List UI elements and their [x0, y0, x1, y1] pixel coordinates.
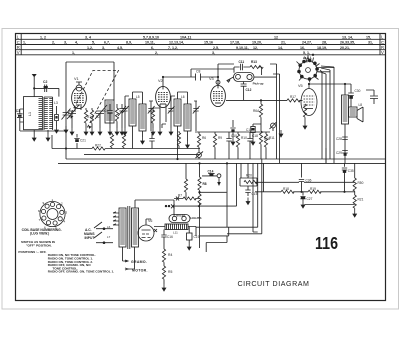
- svg-text:6,: 6,: [151, 46, 154, 50]
- svg-text:L6: L6: [181, 95, 185, 99]
- svg-text:2,: 2,: [155, 51, 158, 55]
- svg-text:L1: L1: [28, 112, 32, 116]
- svg-text:V1: V1: [74, 77, 79, 81]
- svg-text:13, 14,: 13, 14,: [342, 35, 353, 39]
- svg-text:L7: L7: [107, 235, 111, 239]
- svg-text:9,10,11,: 9,10,11,: [236, 46, 249, 50]
- svg-text:Pick-up: Pick-up: [253, 82, 264, 86]
- svg-text:C18: C18: [252, 134, 258, 138]
- svg-text:10,11,: 10,11,: [145, 41, 155, 45]
- svg-text:R9: R9: [218, 136, 222, 140]
- svg-text:C15: C15: [252, 192, 258, 196]
- svg-text:C8: C8: [196, 70, 200, 74]
- svg-text:1, 2: 1, 2: [40, 35, 46, 39]
- svg-text:C28: C28: [336, 137, 342, 141]
- svg-text:R22: R22: [95, 144, 101, 148]
- svg-text:15,: 15,: [366, 35, 371, 39]
- svg-text:R20: R20: [246, 174, 252, 178]
- svg-text:C30: C30: [355, 89, 361, 93]
- svg-text:V3: V3: [209, 77, 214, 81]
- svg-text:P. BULBS: P. BULBS: [174, 214, 186, 218]
- svg-text:8,9,: 8,9,: [126, 41, 132, 45]
- svg-text:A.A.I.: A.A.I.: [303, 56, 312, 60]
- svg-text:5,: 5,: [92, 41, 95, 45]
- svg-text:R1: R1: [87, 115, 91, 119]
- svg-text:3, 4: 3, 4: [85, 35, 91, 39]
- svg-text:3,: 3,: [212, 51, 215, 55]
- svg-text:5, 1,: 5, 1,: [303, 51, 310, 55]
- svg-text:24,27,: 24,27,: [302, 41, 312, 45]
- svg-text:L11: L11: [173, 231, 178, 235]
- svg-text:21,: 21,: [281, 41, 286, 45]
- svg-text:20,21,: 20,21,: [340, 46, 350, 50]
- svg-text:1,: 1,: [23, 41, 26, 45]
- svg-text:V: V: [381, 50, 384, 55]
- svg-text:C14: C14: [208, 170, 214, 174]
- svg-text:17,18,: 17,18,: [230, 41, 240, 45]
- svg-text:R2: R2: [96, 115, 100, 119]
- svg-text:L5: L5: [136, 95, 140, 99]
- svg-text:12,13,14,: 12,13,14,: [169, 41, 184, 45]
- svg-text:GRAMO.: GRAMO.: [131, 260, 147, 264]
- svg-text:R21: R21: [358, 198, 364, 202]
- svg-text:C35: C35: [348, 169, 354, 173]
- svg-text:C13: C13: [246, 128, 252, 132]
- svg-text:1,2,: 1,2,: [87, 46, 93, 50]
- svg-text:2,: 2,: [52, 41, 55, 45]
- svg-text:R18: R18: [283, 187, 289, 191]
- svg-text:V6: V6: [148, 219, 152, 223]
- svg-text:4,5,: 4,5,: [117, 46, 123, 50]
- svg-text:R6A: R6A: [253, 109, 260, 113]
- svg-text:7, 1,2,: 7, 1,2,: [168, 46, 178, 50]
- svg-text:C2: C2: [43, 80, 47, 84]
- svg-text:C29: C29: [336, 151, 342, 155]
- svg-text:R4: R4: [168, 253, 172, 257]
- svg-text:(LUG VIEW.): (LUG VIEW.): [30, 231, 49, 235]
- svg-text:14,: 14,: [278, 46, 283, 50]
- svg-text:C12: C12: [246, 88, 252, 92]
- svg-text:RADIO OFF, GRAMO. ON, TONE CON: RADIO OFF, GRAMO. ON, TONE CONTROL 1.: [48, 270, 115, 274]
- svg-text:6,7,: 6,7,: [104, 41, 110, 45]
- svg-text:10A,11: 10A,11: [180, 35, 191, 39]
- svg-text:L6: L6: [107, 225, 111, 229]
- svg-text:19,20,: 19,20,: [252, 41, 262, 45]
- svg-text:CIRCUIT DIAGRAM: CIRCUIT DIAGRAM: [238, 279, 310, 288]
- svg-text:LIGHTS: LIGHTS: [191, 216, 202, 220]
- svg-text:15,16: 15,16: [204, 41, 213, 45]
- svg-text:3: 3: [66, 211, 68, 215]
- svg-text:3,: 3,: [102, 46, 105, 50]
- svg-text:C10: C10: [231, 134, 237, 138]
- svg-text:R6: R6: [202, 136, 206, 140]
- svg-text:2: 2: [61, 202, 63, 206]
- svg-text:L8: L8: [359, 103, 363, 107]
- svg-text:7: 7: [39, 218, 41, 222]
- svg-text:3,: 3,: [64, 41, 67, 45]
- svg-text:R10: R10: [241, 136, 247, 140]
- svg-text:V2: V2: [158, 79, 163, 83]
- svg-text:R11: R11: [269, 136, 275, 140]
- svg-text:R8: R8: [203, 182, 207, 186]
- svg-text:31,: 31,: [368, 41, 373, 45]
- svg-text:16,: 16,: [300, 46, 305, 50]
- svg-text:1,: 1,: [72, 51, 75, 55]
- svg-text:2,5,: 2,5,: [213, 46, 219, 50]
- svg-text:C16: C16: [167, 235, 173, 239]
- svg-text:V: V: [17, 50, 20, 55]
- svg-text:INPUT: INPUT: [85, 236, 95, 240]
- svg-text:C36: C36: [306, 179, 312, 183]
- svg-text:R5: R5: [168, 270, 172, 274]
- svg-text:C1: C1: [16, 109, 20, 113]
- svg-text:"OFF" POSITION.: "OFF" POSITION.: [26, 243, 52, 247]
- svg-text:4,: 4,: [75, 41, 78, 45]
- svg-text:R17: R17: [290, 95, 296, 99]
- svg-text:R19: R19: [310, 187, 316, 191]
- svg-text:26,33,35,: 26,33,35,: [340, 41, 355, 45]
- svg-text:MOTOR.: MOTOR.: [132, 269, 148, 273]
- svg-text:V5: V5: [298, 84, 303, 88]
- svg-text:5,7,8,9,10: 5,7,8,9,10: [143, 35, 159, 39]
- svg-text:C19: C19: [194, 235, 200, 239]
- svg-text:116: 116: [315, 233, 338, 253]
- svg-text:POSITIONS :– OFF.: POSITIONS :– OFF.: [18, 250, 46, 254]
- svg-text:R13: R13: [251, 60, 257, 64]
- svg-text:L3: L3: [54, 101, 58, 105]
- svg-text:12,: 12,: [253, 46, 258, 50]
- svg-text:C11: C11: [239, 60, 245, 64]
- svg-text:28,: 28,: [322, 41, 327, 45]
- svg-text:12: 12: [274, 35, 278, 39]
- svg-text:R50: R50: [358, 181, 364, 185]
- svg-text:C27: C27: [307, 197, 313, 201]
- svg-text:C21: C21: [80, 139, 86, 143]
- svg-text:4: 4: [64, 220, 66, 224]
- svg-text:18,19,: 18,19,: [317, 46, 327, 50]
